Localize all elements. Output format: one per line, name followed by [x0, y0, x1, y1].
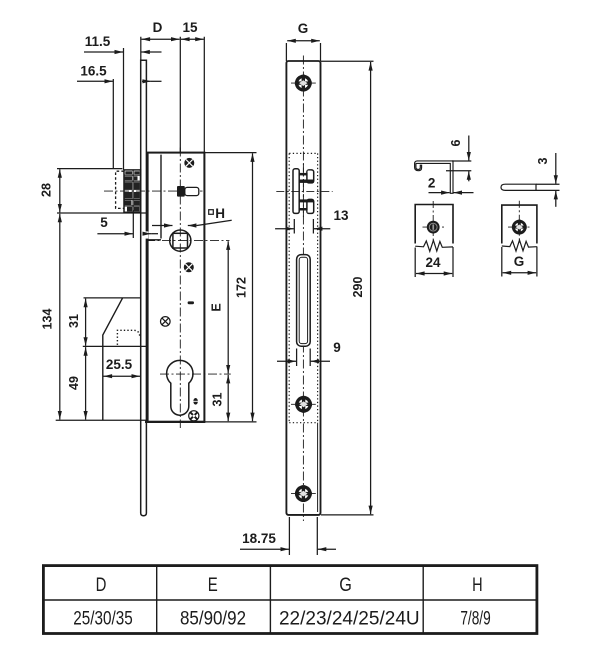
- svg-text:290: 290: [351, 277, 365, 298]
- keyhole horizontal centerline: [160, 373, 231, 375]
- mounting plate G detail: [502, 205, 537, 276]
- strip profile detail: [501, 184, 536, 190]
- svg-text:E: E: [210, 303, 224, 311]
- svg-text:31: 31: [211, 393, 225, 407]
- spindle horizontal centerline: [146, 240, 229, 242]
- dimension 2 label: [428, 176, 436, 191]
- case front inner wall with notch: [147, 155, 162, 240]
- svg-text:E: E: [208, 575, 218, 596]
- notch gap in faceplate back line: [144, 231, 148, 238]
- svg-text:D: D: [96, 575, 107, 596]
- plate 24 centerline: [423, 201, 445, 243]
- plate G screw: [512, 220, 527, 235]
- svg-text:3: 3: [536, 157, 550, 164]
- extension lines 18.75: [289, 517, 317, 555]
- extension line 11.5: [123, 48, 125, 170]
- dimension G line: [287, 40, 320, 42]
- dimension 6 label: [449, 139, 463, 146]
- dimension 24 line: [416, 273, 452, 275]
- latch centerlines front view: [276, 164, 332, 219]
- extension line 5: [132, 210, 134, 238]
- dimension 31 left line: [85, 299, 87, 346]
- plate 24 screw: [427, 221, 440, 234]
- svg-text:31: 31: [67, 314, 81, 328]
- svg-text:172: 172: [235, 277, 249, 298]
- svg-text:G: G: [298, 21, 309, 36]
- faceplate front view: [286, 61, 320, 515]
- dimension 172 label: [235, 277, 249, 298]
- faceplate inner edge line lower right: [317, 423, 319, 512]
- svg-text:24: 24: [425, 255, 441, 270]
- svg-text:9: 9: [333, 340, 341, 355]
- dimension E label: [210, 303, 224, 311]
- dimension 18.75 line: [240, 548, 336, 550]
- spindle hub circle: [170, 230, 191, 251]
- svg-text:2: 2: [428, 176, 436, 191]
- svg-text:D: D: [153, 20, 163, 35]
- extension lines 6: [446, 161, 471, 171]
- latch centerline: [104, 190, 203, 192]
- svg-text:H: H: [472, 575, 483, 596]
- extension lines 28: [57, 169, 146, 213]
- extension lines 172: [205, 153, 257, 422]
- dimension 15 line: [181, 38, 204, 40]
- dimension 5 line: [97, 233, 158, 235]
- dimension 16.5 line: [77, 80, 162, 82]
- hidden dotted detail: [117, 330, 139, 345]
- extension line 16.5: [112, 79, 114, 169]
- keyhole euro profile: [167, 360, 193, 415]
- extension line 134 bottom: [56, 419, 146, 421]
- faceplate centerline: [302, 56, 304, 522]
- spindle square hole H: [173, 233, 188, 248]
- dimension 31 left label: [67, 314, 81, 328]
- extension lines 13: [294, 219, 313, 234]
- dimension D label: [153, 20, 163, 35]
- dimension 134 label: [40, 309, 54, 330]
- extension lines G: [286, 43, 320, 61]
- dimension 49 label: [67, 376, 81, 390]
- dimension 6 line: [468, 136, 470, 182]
- latch bolt block (side view): [124, 170, 141, 212]
- dimension 25.5 label: [106, 357, 133, 372]
- dimension 31 right label: [211, 393, 225, 407]
- small tick mark: [188, 301, 194, 304]
- lever slot cutout: [297, 255, 311, 347]
- dimension 9 line: [277, 360, 330, 362]
- svg-text:H: H: [215, 206, 225, 221]
- dimension 290 label: [351, 277, 365, 298]
- dimension 3 label: [536, 157, 550, 164]
- dimension 3 line: [555, 153, 557, 207]
- svg-text:28: 28: [40, 183, 54, 197]
- dimension 172 line: [252, 153, 254, 421]
- dimension 28 label: [40, 183, 54, 197]
- dimension 5 label: [100, 215, 108, 230]
- svg-text:134: 134: [40, 309, 54, 330]
- svg-text:25/30/35: 25/30/35: [73, 607, 133, 629]
- dimension 25.5 line: [104, 375, 141, 377]
- faceplate edge (side view): [141, 60, 147, 516]
- svg-text:85/90/92: 85/90/92: [180, 607, 246, 629]
- svg-text:G: G: [514, 254, 525, 269]
- dimension 18.75 label: [242, 531, 276, 546]
- dimension 11.5 line: [84, 51, 162, 53]
- dimension 13 label: [333, 208, 349, 223]
- table frame: [43, 566, 537, 634]
- label H with square symbol: [209, 206, 225, 221]
- svg-text:22/23/24/25/24U: 22/23/24/25/24U: [279, 607, 420, 629]
- svg-text:11.5: 11.5: [85, 34, 111, 49]
- dimension G plate label: [514, 254, 525, 269]
- dimension 13 line: [275, 228, 330, 230]
- clip profile detail: [415, 161, 453, 193]
- dimension 16.5 label: [80, 64, 107, 79]
- dotted case outline on faceplate: [289, 153, 317, 422]
- dimension 31 right line: [227, 375, 229, 421]
- svg-text:5: 5: [100, 215, 108, 230]
- dimension D line: [142, 38, 180, 40]
- case screw below spindle: [184, 262, 194, 272]
- extension lines 3: [536, 184, 560, 190]
- faceplate screw bottom: [291, 485, 316, 502]
- dimension H arrows and leader: [152, 220, 232, 225]
- case screw top: [184, 158, 194, 168]
- faceplate screw middle: [291, 396, 316, 413]
- table value row: [73, 607, 490, 629]
- svg-text:7/8/9: 7/8/9: [460, 607, 490, 629]
- dimension E line: [227, 241, 229, 373]
- dimension G label: [298, 21, 309, 36]
- extension lines 290: [321, 61, 374, 515]
- faceplate screw top: [291, 75, 316, 92]
- latch bolt front view: [293, 169, 314, 214]
- dimension G plate line: [503, 272, 537, 274]
- dimension 9 label: [333, 340, 341, 355]
- dimension 15 label: [182, 20, 198, 35]
- extension lines for D and 15: [141, 37, 205, 153]
- cylinder cam block: [177, 186, 199, 197]
- extension lines 31 left: [83, 298, 146, 347]
- svg-text:16.5: 16.5: [80, 64, 107, 79]
- dimension 290 line: [370, 62, 372, 514]
- dimension 49 line: [85, 347, 87, 419]
- svg-text:25.5: 25.5: [106, 357, 133, 372]
- dimension 11.5 label: [85, 34, 111, 49]
- svg-text:13: 13: [333, 208, 349, 223]
- dimension 134 line: [59, 214, 61, 420]
- dimension 24 label: [425, 255, 441, 270]
- small oval pin: [193, 398, 198, 405]
- table header row: [96, 575, 483, 596]
- svg-text:15: 15: [182, 20, 198, 35]
- plate G centerline: [508, 201, 531, 243]
- bottom phillips screw: [189, 411, 199, 421]
- latch dashed retracted outline: [116, 171, 124, 208]
- svg-text:6: 6: [449, 139, 463, 146]
- svg-text:49: 49: [67, 376, 81, 390]
- svg-text:G: G: [339, 575, 352, 596]
- lock case body (side view): [145, 153, 205, 422]
- extension lines 9: [297, 349, 311, 367]
- main vertical centerline: [179, 148, 181, 429]
- side screw mid: [161, 317, 171, 327]
- hook shape lower left: [103, 298, 123, 420]
- dimension 2 line: [429, 192, 474, 194]
- mounting plate 24 detail: [415, 205, 453, 278]
- svg-text:18.75: 18.75: [242, 531, 276, 546]
- dimension 28 line: [59, 169, 61, 212]
